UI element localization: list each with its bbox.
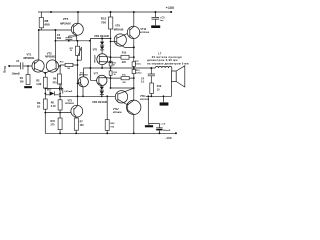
svg-text:на оправке диаметром 5 мм: на оправке диаметром 5 мм [147, 61, 189, 65]
svg-text:MJ15003: MJ15003 [140, 99, 150, 101]
svg-text:R2: R2 [36, 78, 40, 82]
svg-text:VT13: VT13 [140, 28, 146, 31]
svg-text:MPS8092: MPS8092 [65, 103, 75, 105]
svg-text:150: 150 [80, 124, 85, 127]
svg-text:MPS8092: MPS8092 [79, 75, 89, 77]
svg-text:680: 680 [45, 23, 50, 27]
svg-text:MPS8092: MPS8092 [45, 56, 56, 59]
svg-text:0,47мкФ: 0,47мкФ [64, 90, 72, 93]
svg-text:2,7К: 2,7К [51, 105, 56, 108]
svg-text:R1: R1 [20, 76, 24, 80]
svg-text:MPSA06: MPSA06 [60, 21, 71, 25]
svg-text:MPSA56: MPSA56 [113, 111, 123, 114]
svg-text:+ C6: + C6 [160, 123, 165, 125]
svg-text:R3: R3 [37, 101, 41, 105]
svg-text:-100: -100 [165, 136, 172, 140]
svg-text:+100: +100 [166, 6, 174, 10]
svg-text:270: 270 [51, 124, 56, 127]
svg-text:MPS8099: MPS8099 [24, 57, 35, 60]
svg-text:R15: R15 [122, 52, 127, 55]
svg-text:C1: C1 [16, 59, 20, 63]
svg-text:VT5: VT5 [63, 17, 69, 21]
svg-text:0,5Ом: 0,5Ом [135, 64, 141, 66]
svg-text:VD1: VD1 [47, 88, 52, 91]
svg-text:470: 470 [53, 81, 58, 84]
svg-text:10мкФ: 10мкФ [12, 72, 21, 76]
svg-text:1М: 1М [20, 79, 24, 83]
svg-text:VT9: VT9 [115, 24, 120, 28]
svg-text:Вход: Вход [2, 66, 6, 73]
svg-text:VT11: VT11 [140, 95, 146, 98]
svg-text:R19: R19 [157, 85, 162, 88]
svg-text:VD2 1N4148: VD2 1N4148 [94, 34, 109, 38]
svg-text:0,5Ом: 0,5Ом [136, 73, 142, 75]
svg-text:MPSA56: MPSA56 [93, 54, 96, 63]
svg-text:MJ15004: MJ15004 [140, 31, 150, 34]
svg-text:R10: R10 [51, 120, 56, 123]
svg-text:750: 750 [101, 20, 106, 24]
svg-text:VT6: VT6 [93, 48, 98, 51]
svg-text:1К: 1К [37, 104, 40, 108]
svg-text:1,6К: 1,6К [36, 82, 42, 86]
svg-text:VT7: VT7 [94, 73, 99, 76]
svg-text:47мкФ: 47мкФ [163, 129, 170, 132]
svg-text:MPSA56: MPSA56 [114, 28, 124, 31]
svg-text:680: 680 [57, 36, 62, 40]
svg-text:VD3 1N4148: VD3 1N4148 [92, 100, 107, 104]
svg-text:VT12: VT12 [113, 108, 119, 111]
svg-text:220: 220 [122, 61, 127, 64]
